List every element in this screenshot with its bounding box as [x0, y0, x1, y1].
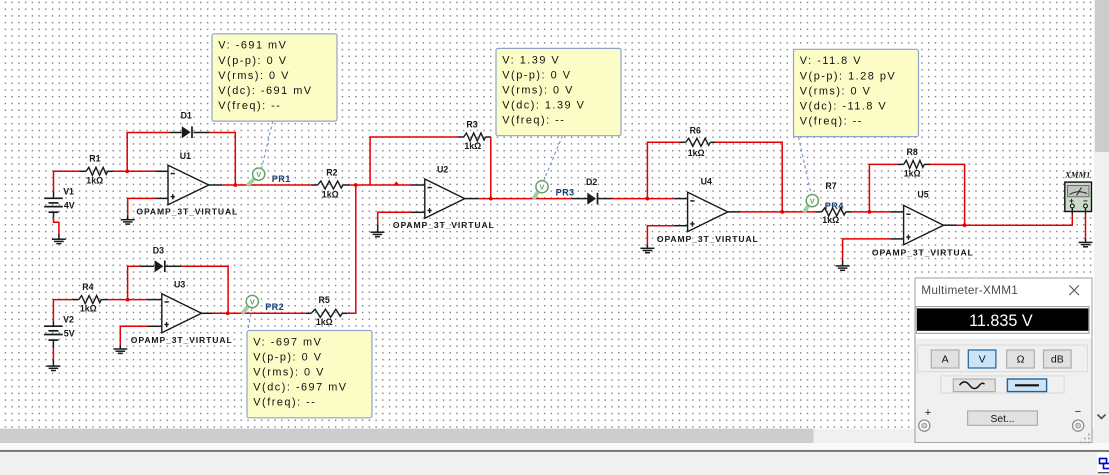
ground — [1079, 242, 1093, 246]
svg-text:V: -11.8 V: V: -11.8 V — [800, 55, 862, 67]
svg-text:1kΩ: 1kΩ — [316, 317, 333, 327]
svg-text:V(rms): 0 V: V(rms): 0 V — [800, 85, 872, 97]
svg-text:OPAMP_3T_VIRTUAL: OPAMP_3T_VIRTUAL — [136, 207, 238, 217]
ground stem — [119, 345, 121, 349]
tooltip PR2 — [247, 331, 372, 418]
battery bottom lead — [53, 212, 55, 218]
wire D2 to U4 inverting input — [612, 198, 674, 200]
ground — [52, 239, 66, 243]
svg-text:D3: D3 — [153, 246, 164, 256]
horizontal scrollbar thumb — [0, 429, 814, 443]
svg-text:R4: R4 — [82, 282, 93, 292]
tooltip PR4 — [794, 49, 919, 136]
svg-text:V(rms): 0 V: V(rms): 0 V — [253, 367, 325, 379]
svg-text:V1: V1 — [63, 187, 74, 197]
svg-text:R7: R7 — [825, 181, 836, 191]
svg-text:V(dc): 1.39 V: V(dc): 1.39 V — [502, 99, 585, 111]
svg-text:1kΩ: 1kΩ — [904, 168, 921, 178]
wire U3 noninverting input to ground — [120, 326, 147, 345]
svg-text:R1: R1 — [89, 154, 100, 164]
wire feedback left to D1 — [127, 133, 169, 172]
battery bottom lead — [52, 340, 54, 348]
resistor R3 — [458, 119, 491, 151]
dc source V1 — [44, 187, 75, 213]
vertical scrollbar thumb — [1095, 0, 1109, 152]
wire U5 output to XMM1 — [957, 215, 1073, 226]
wire U3 output to R5 — [213, 312, 306, 314]
svg-text:D2: D2 — [586, 177, 597, 187]
svg-text:XMM1: XMM1 — [1064, 169, 1090, 179]
svg-text:OPAMP_3T_VIRTUAL: OPAMP_3T_VIRTUAL — [393, 220, 495, 230]
svg-text:V2: V2 — [63, 314, 74, 324]
junction — [354, 183, 358, 187]
op-amp U5 — [872, 190, 974, 258]
net marker — [394, 181, 400, 185]
U5 output lead — [944, 224, 957, 226]
wire U4 output to R7 — [740, 211, 815, 213]
op-amp U2 — [393, 164, 495, 230]
svg-text:V: V — [979, 354, 986, 366]
U2 inverting input lead — [411, 184, 425, 186]
svg-text:PR3: PR3 — [556, 188, 575, 198]
op-amp U1 — [136, 151, 238, 216]
U1 output lead — [209, 184, 223, 186]
wire R2 to U2 inverting input — [350, 184, 411, 186]
svg-text:V(dc): -691 mV: V(dc): -691 mV — [218, 85, 312, 97]
wire U2 noninverting input to ground — [378, 212, 411, 224]
leader line PR3 — [544, 136, 563, 182]
ground stem — [377, 225, 379, 233]
wire U1 output to R2 — [222, 184, 311, 186]
svg-text:V(dc): -11.8 V: V(dc): -11.8 V — [800, 100, 887, 112]
svg-text:V: V — [250, 297, 255, 306]
svg-text:U3: U3 — [174, 280, 185, 290]
U1 inverting input lead — [156, 170, 168, 172]
resistor R8 — [897, 147, 930, 178]
junction — [233, 183, 237, 187]
junction — [780, 210, 784, 214]
svg-text:V(p-p): 0 V: V(p-p): 0 V — [253, 351, 322, 363]
junction — [868, 210, 872, 214]
svg-text:V(freq): --: V(freq): -- — [800, 115, 863, 127]
U3 inverting input lead — [148, 299, 162, 301]
svg-text:V(freq): --: V(freq): -- — [502, 115, 565, 127]
multimeter panel — [915, 278, 1092, 443]
ground stem — [646, 244, 648, 248]
svg-text:D1: D1 — [181, 111, 192, 121]
ground stem — [842, 260, 844, 266]
wire U4 noninverting input to ground — [647, 226, 673, 245]
leader line PR4 — [799, 137, 812, 195]
U2 noninverting input lead — [411, 211, 425, 213]
ground stem — [52, 359, 54, 366]
svg-text:V(rms): 0 V: V(rms): 0 V — [218, 70, 290, 82]
svg-text:V: V — [256, 170, 261, 179]
junction — [489, 197, 493, 201]
wire R8 down to U5 output — [930, 164, 965, 225]
svg-text:V(p-p): 0 V: V(p-p): 0 V — [218, 55, 287, 67]
wire R4 to U3 inverting input — [108, 299, 148, 301]
ground — [370, 232, 384, 236]
probe PR4 — [805, 195, 845, 212]
tooltip PR3 — [496, 48, 621, 135]
svg-text:A: A — [942, 354, 949, 366]
status bar — [0, 452, 1109, 475]
ground — [836, 266, 850, 270]
wire D1 to U1 output — [210, 133, 235, 186]
resistor R5 — [306, 295, 348, 327]
wire feedback left to R8 — [869, 164, 897, 212]
U4 inverting input lead — [674, 198, 688, 200]
resistor R1 — [80, 154, 113, 186]
svg-text:V(dc): -697 mV: V(dc): -697 mV — [253, 382, 347, 394]
svg-text:dB: dB — [1051, 354, 1064, 366]
svg-text:4V: 4V — [64, 201, 75, 211]
battery top lead — [53, 191, 55, 198]
svg-text:V: V — [539, 183, 544, 192]
U4 output lead — [728, 211, 741, 213]
svg-text:V: -697 mV: V: -697 mV — [253, 336, 322, 348]
ground stem — [1085, 239, 1087, 243]
wire R5 up to summing node — [348, 185, 356, 313]
svg-text:1kΩ: 1kΩ — [822, 215, 839, 225]
svg-text:U2: U2 — [437, 164, 448, 174]
ground — [640, 248, 654, 252]
svg-text:1kΩ: 1kΩ — [80, 304, 97, 314]
wire V2 to R4 — [53, 300, 72, 322]
status bar icon — [1097, 453, 1109, 474]
wire V1 to R1 — [54, 171, 80, 191]
vertical scrollbar down arrow — [1098, 415, 1106, 419]
wire R3 down to U2 output — [490, 137, 492, 199]
wire XMM1 to ground — [1085, 215, 1087, 239]
U5 noninverting input lead — [890, 238, 903, 240]
wire feedback left to D3 — [128, 266, 141, 299]
svg-text:V: -691 mV: V: -691 mV — [218, 40, 287, 52]
svg-text:R2: R2 — [326, 168, 337, 178]
junction node A — [125, 169, 129, 173]
svg-text:5V: 5V — [64, 328, 75, 338]
svg-text:Ω: Ω — [1017, 354, 1025, 366]
tooltip PR1 — [212, 34, 337, 121]
svg-text:−: − — [1075, 406, 1081, 418]
svg-text:1kΩ: 1kΩ — [322, 190, 339, 200]
svg-text:PR1: PR1 — [272, 174, 291, 184]
ground — [46, 366, 60, 370]
svg-text:11.835 V: 11.835 V — [969, 312, 1033, 330]
dc source V2 — [44, 314, 75, 340]
resistor R2 — [312, 168, 350, 200]
wire U1 noninverting input to ground — [128, 198, 156, 215]
svg-text:U4: U4 — [701, 177, 712, 187]
svg-text:R6: R6 — [690, 126, 701, 136]
svg-text:OPAMP_3T_VIRTUAL: OPAMP_3T_VIRTUAL — [657, 234, 759, 244]
wire U2 output to D2 — [479, 198, 572, 200]
wire V2 to ground — [52, 348, 54, 360]
U1 noninverting input lead — [156, 197, 168, 199]
vertical scrollbar track — [1094, 0, 1109, 443]
wire U5 noninverting input to ground — [843, 239, 891, 260]
XMM1 plus terminal lead — [1071, 208, 1073, 215]
wire feedback left to R6 — [647, 142, 679, 198]
svg-text:1kΩ: 1kΩ — [688, 148, 705, 158]
svg-text:R3: R3 — [466, 119, 477, 129]
svg-text:V(p-p): 1.28 pV: V(p-p): 1.28 pV — [800, 70, 896, 82]
op-amp U4 — [657, 177, 759, 244]
junction — [646, 197, 650, 201]
junction — [126, 298, 130, 302]
svg-text:Set...: Set... — [990, 414, 1014, 425]
diode D2 — [586, 177, 598, 204]
svg-text:V(rms): 0 V: V(rms): 0 V — [502, 84, 574, 96]
leader line PR2 — [248, 308, 252, 330]
battery top lead — [52, 321, 54, 326]
svg-text:1kΩ: 1kΩ — [86, 175, 103, 185]
svg-text:PR2: PR2 — [265, 302, 284, 312]
ground stem — [127, 216, 129, 220]
svg-text:OPAMP_3T_VIRTUAL: OPAMP_3T_VIRTUAL — [872, 247, 974, 257]
probe PR3 — [534, 181, 574, 198]
probe PR1 — [248, 168, 290, 185]
svg-text:R5: R5 — [319, 295, 330, 305]
diode D1 leads — [169, 132, 181, 134]
status strip — [0, 443, 1109, 450]
svg-text:Multimeter-XMM1: Multimeter-XMM1 — [921, 283, 1018, 297]
U5 inverting input lead — [891, 211, 904, 213]
junction — [963, 223, 967, 227]
junction — [226, 311, 230, 315]
leader line PR1 — [262, 121, 273, 169]
diode D1 — [181, 111, 192, 139]
wire D3 to U3 output — [181, 266, 228, 313]
multimeter XMM1 icon — [1064, 169, 1091, 211]
resistor R7 — [0, 0, 852, 225]
diode D3 — [153, 246, 165, 273]
svg-text:R8: R8 — [907, 147, 918, 157]
svg-text:V: V — [810, 196, 815, 205]
ground — [113, 349, 127, 353]
svg-text:V(freq): --: V(freq): -- — [253, 397, 316, 409]
svg-text:V(freq): --: V(freq): -- — [218, 100, 281, 112]
wire R7 to U5 inverting input — [852, 211, 891, 213]
resistor R6 — [680, 126, 716, 159]
U2 output lead — [465, 198, 479, 200]
ground stem V1 — [58, 234, 60, 240]
diode D2 leads — [572, 198, 587, 200]
probe PR2 — [243, 295, 284, 312]
diode D3 leads — [140, 265, 154, 267]
svg-text:U1: U1 — [180, 151, 191, 161]
svg-text:U5: U5 — [917, 190, 928, 200]
svg-text:+: + — [925, 407, 931, 419]
wire V1 to ground — [54, 218, 59, 234]
op-amp U3 — [131, 280, 233, 346]
status separator line — [0, 450, 1109, 452]
ground — [121, 220, 135, 224]
resistor R4 — [72, 282, 107, 313]
horizontal scrollbar track — [0, 429, 1094, 443]
U4 noninverting input lead — [674, 225, 688, 227]
wire R6 down to U4 output — [716, 142, 782, 212]
svg-text:V(p-p): 0 V: V(p-p): 0 V — [502, 69, 571, 81]
svg-text:V: 1.39 V: V: 1.39 V — [502, 54, 560, 66]
wire feedback left to R3 — [370, 137, 458, 185]
U3 noninverting input lead — [148, 325, 162, 327]
svg-text:OPAMP_3T_VIRTUAL: OPAMP_3T_VIRTUAL — [131, 335, 233, 345]
svg-text:1kΩ: 1kΩ — [464, 141, 481, 151]
wire R1 to U1 inverting input — [113, 170, 156, 172]
U3 output lead — [202, 312, 213, 314]
XMM1 minus terminal lead — [1085, 208, 1087, 215]
